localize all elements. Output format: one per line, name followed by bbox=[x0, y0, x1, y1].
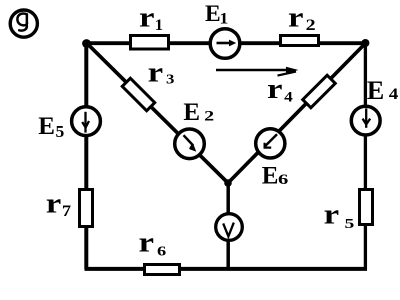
label E6 bbox=[262, 163, 289, 190]
svg-text:1: 1 bbox=[155, 17, 163, 34]
resistor r6 bbox=[145, 265, 180, 275]
label r1 bbox=[139, 3, 163, 34]
svg-text:3: 3 bbox=[166, 73, 174, 88]
label r3 bbox=[148, 58, 175, 89]
wire top (node A to node B) bbox=[86, 41, 366, 45]
svg-text:E: E bbox=[183, 99, 200, 126]
problem number badge 9 bbox=[10, 10, 37, 37]
svg-text:6: 6 bbox=[157, 244, 167, 259]
wire diagonal right (B to center node C) bbox=[228, 44, 365, 184]
svg-text:E: E bbox=[262, 163, 279, 190]
node B (top-right junction dot) bbox=[361, 39, 369, 47]
label E1 bbox=[205, 1, 228, 27]
wire right bbox=[364, 44, 367, 269]
wire center vertical (C to bottom) bbox=[226, 183, 230, 269]
resistor r7 bbox=[80, 190, 93, 227]
voltmeter V bbox=[216, 214, 243, 241]
svg-text:E: E bbox=[205, 1, 221, 27]
svg-text:5: 5 bbox=[56, 122, 65, 141]
svg-text:7: 7 bbox=[62, 203, 71, 220]
EMF source E6 bbox=[256, 129, 285, 158]
node A (top-left junction dot) bbox=[82, 39, 91, 48]
svg-text:r: r bbox=[267, 74, 283, 105]
resistor r4 (slanted) bbox=[303, 75, 336, 108]
label r6 bbox=[139, 228, 167, 259]
wire bottom bbox=[85, 267, 368, 271]
label r7 bbox=[46, 188, 71, 220]
svg-text:1: 1 bbox=[219, 10, 228, 27]
node C (center junction dot) bbox=[224, 179, 232, 187]
EMF source E5 bbox=[72, 107, 101, 136]
svg-text:E: E bbox=[38, 113, 55, 140]
resistor r1 bbox=[131, 36, 169, 50]
resistor r2 bbox=[281, 36, 319, 46]
resistor r5 bbox=[360, 190, 373, 225]
svg-text:2: 2 bbox=[204, 108, 214, 124]
svg-text:r: r bbox=[324, 200, 340, 231]
svg-text:r: r bbox=[288, 2, 304, 33]
svg-text:5: 5 bbox=[345, 216, 355, 231]
label r5 bbox=[324, 200, 355, 231]
svg-text:r: r bbox=[148, 58, 164, 89]
svg-text:r: r bbox=[139, 3, 155, 34]
EMF source E1 bbox=[210, 29, 240, 59]
current direction arrow bbox=[216, 67, 299, 76]
label r2 bbox=[288, 2, 316, 34]
label r4 bbox=[267, 74, 293, 106]
label E5 bbox=[38, 113, 64, 141]
svg-text:6: 6 bbox=[278, 172, 288, 188]
label E2 bbox=[183, 99, 214, 126]
EMF source E2 bbox=[175, 129, 205, 159]
svg-text:4: 4 bbox=[284, 90, 293, 106]
label E4 bbox=[367, 76, 398, 105]
svg-text:r: r bbox=[46, 188, 62, 219]
wire diagonal left (A to center node C) bbox=[87, 43, 228, 183]
svg-text:2: 2 bbox=[306, 17, 316, 34]
wire left bbox=[84, 43, 88, 269]
svg-text:4: 4 bbox=[389, 86, 399, 103]
resistor r3 (slanted) bbox=[122, 78, 155, 111]
EMF source E4 bbox=[351, 106, 380, 135]
svg-text:r: r bbox=[139, 228, 155, 259]
svg-text:E: E bbox=[367, 76, 384, 105]
